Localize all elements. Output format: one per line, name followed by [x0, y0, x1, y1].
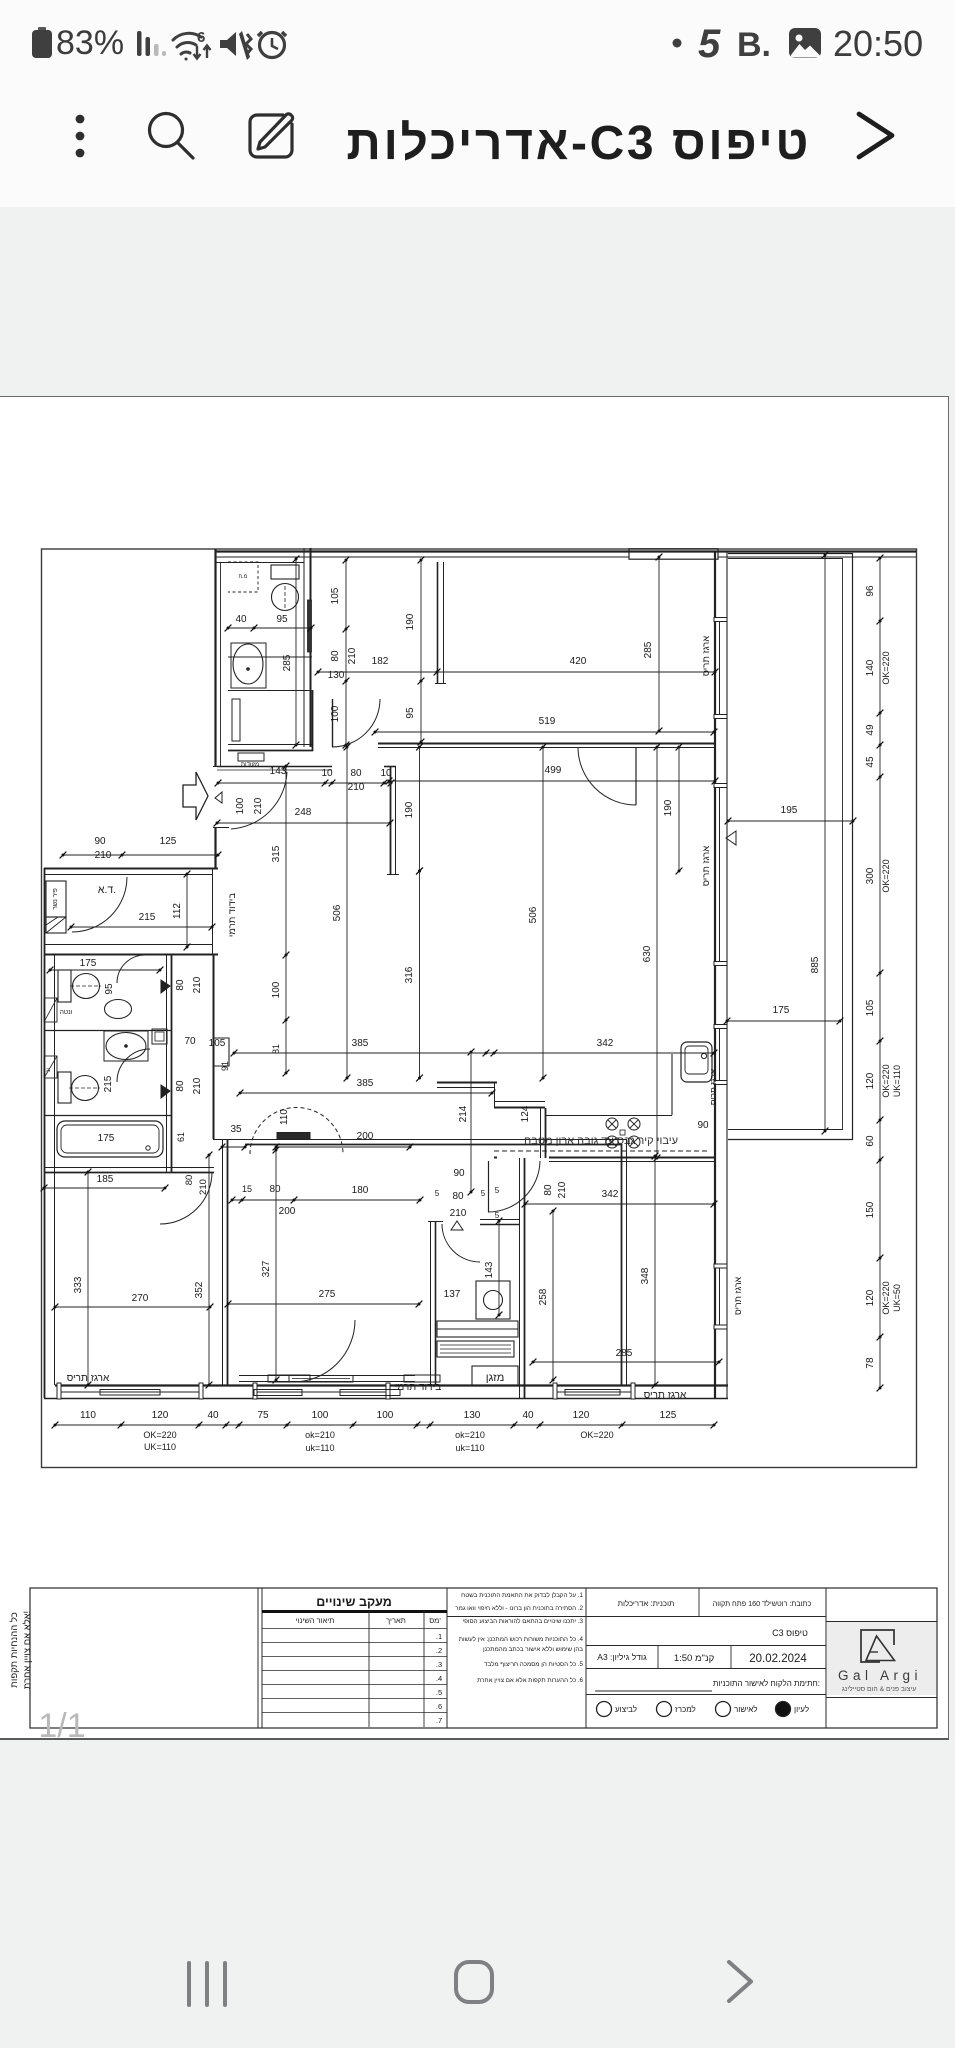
- window glazing bottom wall 2: [256, 1391, 387, 1393]
- wall: bedroom2 top outer: [213, 1139, 627, 1141]
- dim 285 bedroom3: [530, 1359, 723, 1366]
- svg-text:70: 70: [184, 1036, 196, 1047]
- kitchen counter edge right: [671, 1054, 673, 1115]
- shaft box pir: [46, 881, 66, 917]
- dim 182/420 line: [315, 669, 719, 676]
- window cap: [714, 1325, 727, 1329]
- svg-text:4. כל התוכניות משורות רכוש המת: 4. כל התוכניות משורות רכוש המתכנן: אין ל…: [459, 1635, 584, 1643]
- ac louvre unit: [437, 1341, 514, 1357]
- svg-text:3. יתכנו שינויים בהתאם להוראות: 3. יתכנו שינויים בהתאם להוראות הביצוע הס…: [463, 1617, 584, 1625]
- wall: bathroom top inner face: [215, 562, 304, 564]
- wall: top exterior inner face left: [215, 556, 629, 558]
- niche lobby top line2: [217, 769, 332, 771]
- wall: bottom exterior outer face: [44, 1398, 728, 1400]
- vent box 2: [44, 1056, 57, 1078]
- svg-text:100: 100: [235, 797, 246, 814]
- wall: bathroom right face outer: [303, 548, 305, 747]
- svg-text:120: 120: [152, 1410, 169, 1421]
- wall: kitchen stub lower bottom: [494, 1107, 545, 1109]
- dim 175 wc1: [47, 967, 164, 974]
- bathtub outer: [57, 1121, 163, 1157]
- svg-text:בידוד תרמי: בידוד תרמי: [395, 1382, 441, 1393]
- svg-text:ok=210: ok=210: [455, 1430, 485, 1440]
- small basin wc1: [105, 1000, 132, 1019]
- wifi 6 icon: [173, 33, 201, 59]
- changes table thick line: [262, 1610, 447, 1613]
- changes row line 6: [262, 1698, 447, 1700]
- svg-text:120: 120: [865, 1072, 876, 1089]
- svg-text:45: 45: [865, 756, 876, 768]
- svg-text:80: 80: [184, 1175, 195, 1186]
- door leaf plate bedroom2 R: [404, 1375, 440, 1382]
- info col scale: [730, 1646, 732, 1668]
- dim 175 balcony lower: [724, 1018, 844, 1025]
- changes row line 5: [262, 1684, 447, 1686]
- svg-text:OK=220: OK=220: [881, 651, 891, 684]
- changes row line 4: [262, 1670, 447, 1672]
- wall: service-bed3 divider inner: [524, 1158, 526, 1398]
- status + toolbar background: [0, 0, 955, 207]
- status bar: [0, 0, 955, 207]
- svg-text:ארגז תריס: ארגז תריס: [708, 1068, 718, 1105]
- window shutter hatch right: [340, 1390, 400, 1396]
- svg-text:90: 90: [697, 1120, 709, 1131]
- svg-text:Gal Argi: Gal Argi: [838, 1668, 922, 1683]
- svg-text:20:50: 20:50: [833, 23, 923, 64]
- svg-text:40: 40: [235, 614, 247, 625]
- document page: [0, 396, 949, 1740]
- wall: corridor left face below entry: [214, 827, 216, 868]
- svg-text:630: 630: [642, 945, 653, 962]
- svg-text:OK=220: OK=220: [881, 859, 891, 892]
- toilet tank wc2: [58, 1072, 71, 1103]
- balcony door swing marker: [726, 831, 736, 845]
- svg-text:תוכנית: אדריכלות: תוכנית: אדריכלות: [618, 1599, 675, 1608]
- dim chain 40/95 in bathroom: [225, 625, 315, 632]
- wall: bedroom2 left outer: [222, 1139, 224, 1385]
- washing machine drum: [484, 1291, 503, 1310]
- window cap: [714, 715, 727, 719]
- svg-text:ארגז תריס: ארגז תריס: [644, 1390, 687, 1401]
- svg-text:185: 185: [97, 1174, 114, 1185]
- nav back icon: [729, 1962, 751, 2001]
- svg-text:348: 348: [640, 1267, 651, 1284]
- toilet bowl wc1: [73, 974, 100, 999]
- right dim chain: [877, 555, 884, 1392]
- svg-text:ונטה: ונטה: [60, 1009, 73, 1016]
- svg-text:80: 80: [543, 1184, 554, 1196]
- kitchen sink inner: [685, 1046, 708, 1074]
- svg-text:בידוד תרמי: בידוד תרמי: [227, 893, 238, 937]
- svg-text:.2: .2: [436, 1646, 442, 1655]
- vanity basin rect: [231, 643, 266, 688]
- wall: closet bottom outer: [228, 750, 313, 752]
- svg-text:תאריך: תאריך: [386, 1616, 406, 1625]
- balcony right inner: [842, 558, 844, 1130]
- alarm clock icon: [258, 32, 286, 58]
- svg-text:333: 333: [73, 1276, 84, 1293]
- svg-text:210: 210: [347, 647, 358, 664]
- vanity counter line: [228, 656, 312, 658]
- door swing triangle wc2: [161, 1085, 170, 1098]
- wall: corridor left inner face: [220, 562, 222, 766]
- svg-text:B.: B.: [737, 26, 771, 64]
- svg-text:885: 885: [810, 956, 821, 973]
- washer box b2 inner: [155, 1032, 164, 1041]
- vent box2 diag: [44, 1056, 57, 1078]
- dim 385 lower: [237, 1090, 496, 1097]
- svg-text:ארגז תריס: ארגז תריס: [701, 846, 712, 886]
- window shutter hatch left: [254, 1390, 302, 1396]
- svg-text:100: 100: [330, 705, 341, 722]
- svg-text:חתימת הלקוח לאישור התוכניות:: חתימת הלקוח לאישור התוכניות:: [713, 1679, 820, 1688]
- wall: right exterior inner face: [726, 551, 728, 1398]
- gal argi panel: [827, 1622, 936, 1695]
- svg-text:ארגז תריס: ארגז תריס: [701, 636, 712, 676]
- dim 248 entry hall: [214, 820, 394, 827]
- svg-text:ד.א.: ד.א.: [98, 884, 116, 896]
- svg-text:342: 342: [597, 1038, 614, 1049]
- door leaf bedroom3 hall: [488, 1161, 490, 1212]
- gal argi bottom line: [826, 1697, 937, 1699]
- svg-text:140: 140: [865, 659, 876, 676]
- dim 327 bedroom2: [273, 1147, 280, 1384]
- wall: d.a. room top inner: [44, 874, 213, 876]
- bottom gray band: [0, 1740, 955, 2048]
- dim 506 col left: [344, 744, 351, 1082]
- wall niche jog: [213, 1038, 229, 1066]
- entry arrow: [183, 772, 208, 820]
- svg-text:215: 215: [103, 1075, 114, 1092]
- door leaf plate bedroom2 L: [268, 1375, 310, 1382]
- ac louvre slat: [440, 1352, 511, 1354]
- svg-text:112: 112: [172, 903, 183, 919]
- vanity basin oval: [233, 644, 263, 684]
- dim 348 bedroom3: [652, 1153, 659, 1389]
- svg-text:5: 5: [495, 1211, 500, 1220]
- svg-text:.4: .4: [436, 1674, 442, 1683]
- dashed beam arc bedroom2: [250, 1108, 343, 1155]
- wall: bath divider 2: [44, 1115, 171, 1117]
- gal argi logo bar: [869, 1651, 878, 1653]
- vent box: [44, 998, 57, 1022]
- svg-text:125: 125: [660, 1410, 677, 1421]
- svg-text:95: 95: [276, 614, 288, 625]
- info row line3: [586, 1668, 826, 1670]
- door leaf top bedroom: [635, 747, 637, 805]
- sliding panel mid: [292, 1378, 350, 1380]
- wall stub outer: [437, 562, 439, 683]
- svg-text:61: 61: [176, 1132, 186, 1142]
- gal argi top line: [826, 1621, 937, 1623]
- svg-text:.1: .1: [436, 1632, 442, 1641]
- gal argi logo triangle: [866, 1636, 895, 1661]
- shaft hatch diagonal: [46, 917, 58, 925]
- svg-text:5: 5: [698, 22, 721, 66]
- svg-text:190: 190: [663, 799, 674, 816]
- svg-text:OK=220: OK=220: [143, 1430, 176, 1440]
- info col addr/plan: [698, 1588, 700, 1616]
- dim 630 col: [654, 744, 661, 1162]
- wall: bedroom3 top inner: [549, 1161, 714, 1163]
- svg-text:לביצוע: לביצוע: [615, 1705, 637, 1714]
- window shutter hatch bed3: [565, 1390, 620, 1396]
- window glazing right wall 1: [719, 621, 721, 715]
- svg-text:60: 60: [865, 1135, 876, 1147]
- bottom dim chain: [52, 1422, 718, 1429]
- wall: top exterior face: [215, 550, 916, 552]
- wall: bedroom3 top left seg: [494, 1157, 497, 1159]
- wall: stub corner vertical: [494, 1082, 496, 1108]
- dim 15/80/180 line: [229, 1197, 424, 1204]
- svg-text:210: 210: [192, 1077, 203, 1094]
- svg-text:35: 35: [230, 1124, 242, 1135]
- svg-text:בהן שימוש וללא אישור בכתב מהמת: בהן שימוש וללא אישור בכתב מהמתכנן: [483, 1645, 583, 1653]
- toilet bowl wc2: [72, 1076, 99, 1101]
- svg-text:210: 210: [450, 1208, 467, 1219]
- svg-text:200: 200: [357, 1131, 374, 1142]
- svg-text:210: 210: [348, 782, 365, 793]
- wall: living-kitchen stub top: [437, 1082, 497, 1084]
- nav home icon: [456, 1962, 492, 2002]
- wall: hall right face outer: [390, 766, 392, 875]
- svg-text:טיפוס C3: טיפוס C3: [772, 1628, 808, 1638]
- svg-text:49: 49: [865, 724, 876, 736]
- window shutter hatch bed1: [100, 1390, 160, 1396]
- toilet centerline wc2: [69, 1087, 100, 1089]
- svg-text:130: 130: [464, 1410, 481, 1421]
- gal argi logo square: [861, 1630, 894, 1662]
- title block divider x262: [261, 1588, 263, 1728]
- washing machine: [476, 1281, 510, 1319]
- dim 316 col: [416, 868, 423, 1082]
- svg-text:385: 385: [352, 1038, 369, 1049]
- svg-text:91: 91: [220, 1061, 230, 1071]
- svg-text:248: 248: [295, 807, 312, 818]
- wall: wc1/bath divider: [44, 1030, 171, 1032]
- svg-text:UK=50: UK=50: [892, 1284, 902, 1312]
- ac louvre slat: [440, 1344, 511, 1346]
- dashed niche in bathroom: [228, 562, 258, 592]
- wall: bathroom/closet divider: [228, 690, 311, 692]
- stove burner: [606, 1118, 618, 1130]
- radio לעיון: [776, 1702, 791, 1717]
- balcony right outer: [852, 553, 854, 1140]
- balcony top edge: [728, 553, 853, 555]
- small cabinet above entry: [238, 753, 264, 761]
- vanity2 rect: [104, 1031, 148, 1061]
- wall: bedroom2 top inner: [245, 1144, 622, 1146]
- info col a3: [657, 1646, 659, 1668]
- svg-text:100: 100: [377, 1410, 394, 1421]
- svg-text:210: 210: [557, 1181, 568, 1198]
- svg-text:215: 215: [139, 912, 156, 923]
- toolbar: edit icon: [250, 114, 293, 157]
- svg-text:352: 352: [194, 1281, 205, 1298]
- info row line4: [586, 1694, 826, 1696]
- svg-text:182: 182: [372, 656, 389, 667]
- svg-text:אלא אם צויין אחרת!: אלא אם צויין אחרת!: [21, 1611, 33, 1689]
- svg-text:5: 5: [481, 1189, 486, 1198]
- svg-text:175: 175: [98, 1133, 115, 1144]
- dim 352 corridor: [206, 1152, 213, 1389]
- wall: bottom exterior inner face: [55, 1384, 728, 1386]
- svg-text:ונ: ונ: [46, 1068, 52, 1072]
- kitchen sink: [681, 1042, 712, 1082]
- changes row line 2: [262, 1642, 447, 1644]
- svg-text:80: 80: [269, 1184, 281, 1195]
- wall: top exterior inner face right: [718, 556, 916, 558]
- battery icon: [32, 27, 52, 58]
- changes col date: [368, 1611, 370, 1727]
- svg-text:316: 316: [404, 966, 415, 983]
- tub drain: [146, 1146, 150, 1150]
- wall: sanitary right inner: [171, 955, 173, 1172]
- svg-text:מעקב שינויים: מעקב שינויים: [316, 1595, 392, 1609]
- vanity2 basin: [106, 1033, 146, 1060]
- door swing triangle wc1: [161, 980, 170, 993]
- wall: right exterior outer face: [714, 551, 716, 1398]
- window cap: [386, 1383, 390, 1399]
- window cap: [57, 1383, 61, 1399]
- svg-text:120: 120: [573, 1410, 590, 1421]
- svg-text:83%: 83%: [56, 24, 124, 62]
- shower door leaf bar: [308, 600, 312, 652]
- svg-text:100: 100: [312, 1410, 329, 1421]
- info row line1: [447, 1616, 826, 1618]
- svg-text:uk=110: uk=110: [305, 1443, 334, 1453]
- svg-text:80: 80: [330, 650, 341, 662]
- door arc bedroom1: [160, 1172, 212, 1224]
- svg-text:285: 285: [282, 654, 293, 671]
- svg-text:90: 90: [453, 1168, 465, 1179]
- radio למכרז: [657, 1702, 672, 1717]
- signal bars icon: [137, 31, 166, 56]
- svg-text:80: 80: [350, 768, 362, 779]
- kitchen counter dashed: [494, 1150, 710, 1152]
- svg-text:6: 6: [197, 29, 205, 46]
- svg-text:210: 210: [253, 797, 264, 814]
- svg-text:327: 327: [261, 1260, 272, 1277]
- svg-text:OK=220: OK=220: [580, 1430, 613, 1440]
- wall: bathroom right face inner: [310, 548, 312, 747]
- svg-text:96: 96: [865, 585, 876, 597]
- pocket door leaf bedroom2: [277, 1133, 310, 1140]
- svg-text:uk=110: uk=110: [455, 1443, 484, 1453]
- wall: corridor left face upper: [214, 549, 216, 766]
- dim 143 service: [496, 1218, 503, 1319]
- svg-text:200: 200: [279, 1206, 296, 1217]
- dim 285 bathroom height: [293, 556, 300, 749]
- navigation bar: [0, 1740, 955, 2048]
- sliding panel: [289, 1376, 353, 1383]
- svg-text:110: 110: [80, 1410, 96, 1421]
- door arc top bedroom: [578, 747, 636, 805]
- balcony top inner: [728, 558, 843, 560]
- svg-text:90: 90: [94, 836, 106, 847]
- svg-text:175: 175: [80, 958, 97, 969]
- svg-text:80: 80: [175, 979, 186, 991]
- wall: service-bed3 divider outer: [519, 1158, 521, 1398]
- svg-text:5: 5: [495, 1186, 500, 1195]
- svg-text:למכרז: למכרז: [675, 1705, 696, 1714]
- stove burner: [606, 1136, 618, 1148]
- info row line2: [586, 1645, 826, 1647]
- svg-text:מס': מס': [429, 1616, 441, 1625]
- wall: hall right face inner: [395, 766, 397, 875]
- washer box b2: [152, 1029, 167, 1044]
- window glazing right wall 2: [719, 787, 721, 962]
- window cap: [714, 1264, 727, 1268]
- door arc service: [442, 1224, 480, 1262]
- wall: left exterior outer face: [44, 868, 46, 1398]
- svg-text:300: 300: [865, 867, 876, 884]
- svg-text:125: 125: [160, 836, 177, 847]
- svg-text:לעיון: לעיון: [794, 1705, 809, 1714]
- dim 885 balcony col: [822, 552, 829, 1135]
- title block divider x586: [585, 1588, 587, 1728]
- svg-text:OK=220: OK=220: [881, 1064, 891, 1097]
- svg-text:195: 195: [781, 805, 798, 816]
- svg-text:519: 519: [539, 716, 556, 727]
- vent box diag: [44, 998, 57, 1022]
- svg-text:קנ"מ 1:50: קנ"מ 1:50: [674, 1653, 715, 1664]
- toolbar: overflow menu dots: [76, 115, 85, 158]
- toolbar title: [211, 116, 811, 171]
- balcony bottom inner: [728, 1129, 843, 1131]
- title block outer frame: [30, 1588, 937, 1728]
- closet shelf side: [232, 699, 240, 741]
- svg-text:180: 180: [352, 1185, 369, 1196]
- shelf unit service: [437, 1321, 518, 1337]
- wall: bedroom3 top outer: [549, 1157, 714, 1159]
- notification dot: [673, 39, 682, 48]
- wall: d.a. room top outer: [44, 868, 218, 870]
- dim 342 bedroom3: [522, 1201, 718, 1208]
- svg-text:לאישור: לאישור: [734, 1705, 758, 1714]
- signature line: [595, 1690, 712, 1692]
- window glazing bottom wall 1: [60, 1391, 200, 1393]
- svg-text:385: 385: [357, 1078, 374, 1089]
- svg-text:6. כל ההערות תקפות אלא אם צויי: 6. כל ההערות תקפות אלא אם צויין אחרת: [477, 1676, 583, 1684]
- svg-text:110: 110: [279, 1109, 290, 1125]
- wall: kitchen stub lower top: [494, 1101, 545, 1103]
- door swing marker service: [451, 1221, 463, 1230]
- svg-text:120: 120: [865, 1289, 876, 1306]
- svg-text:105: 105: [209, 1038, 226, 1049]
- svg-text:ארגז תריס: ארגז תריס: [733, 1276, 743, 1315]
- drawing frame: [42, 549, 917, 1468]
- shaft hatch diagonal: [46, 917, 66, 933]
- svg-text:190: 190: [405, 613, 416, 630]
- wall: bedroom2 left inner: [227, 1139, 229, 1385]
- sliding track bottom: [239, 1381, 415, 1383]
- window cap: [253, 1383, 257, 1399]
- changes row line 3: [262, 1656, 447, 1658]
- svg-text:2. הסתירה בתוכנית הון ברונו -: 2. הסתירה בתוכנית הון ברונו - וללא חיפוי…: [455, 1604, 583, 1612]
- toilet tank wc1: [58, 970, 71, 1002]
- window cap: [714, 784, 727, 788]
- svg-text:מזגן: מזגן: [486, 1372, 505, 1384]
- dim 90/125 line: [60, 852, 222, 859]
- wall: sanitary top outer: [44, 955, 218, 957]
- dim 519 line: [372, 729, 718, 736]
- wall: service left inner: [435, 1221, 437, 1385]
- wall: left exterior inner face: [54, 955, 56, 1385]
- dim 215 d.a.: [68, 924, 216, 931]
- basin drain dot: [246, 667, 250, 671]
- svg-text:עיבוי קיר גבס עד גובה ארון מטב: עיבוי קיר גבס עד גובה ארון מטבח: [524, 1135, 678, 1147]
